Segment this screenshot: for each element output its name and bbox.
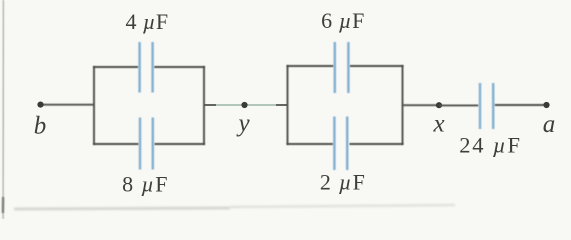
capacitor C2 8uF plates (140, 118, 153, 170)
wire block2 to node x (403, 104, 441, 106)
wire block1 bottom-left (93, 143, 138, 145)
block1 left edge (93, 66, 95, 145)
svg-text:b: b (34, 113, 47, 140)
block2 left edge (287, 65, 289, 145)
svg-text:8 µF: 8 µF (122, 172, 169, 197)
wire block1 top-left (93, 66, 138, 68)
scan edge line (left) (2, 0, 5, 219)
wire block1 to node y to block2 (204, 104, 287, 106)
svg-text:y: y (235, 110, 250, 137)
node x (436, 102, 442, 108)
svg-text:a: a (543, 111, 556, 138)
svg-text:6 µF: 6 µF (321, 8, 365, 33)
svg-text:x: x (432, 111, 444, 138)
wire block2 top-left (287, 65, 334, 67)
block2 right edge (402, 65, 404, 145)
wire node x to C5 (439, 104, 478, 106)
wire block2 bottom-right (350, 143, 404, 145)
wire block1 top-right (154, 66, 205, 68)
node b (37, 102, 43, 108)
scan shadow (bottom) (14, 205, 455, 209)
capacitor C3 6uF plates (335, 42, 349, 93)
wire block2 bottom-left (287, 143, 333, 145)
svg-text:4 µF: 4 µF (125, 9, 168, 34)
block1 right edge (203, 66, 205, 145)
wire dark end near block1 (204, 104, 216, 106)
wire dark end near block2 (276, 104, 287, 106)
wire b to block1 (41, 104, 94, 106)
wire block1 bottom-right (155, 143, 205, 145)
node a (543, 102, 549, 108)
node y (241, 102, 247, 108)
capacitor C4 2uF plates (334, 117, 347, 171)
svg-text:24 µF: 24 µF (459, 133, 522, 158)
wire C5 to node a (495, 104, 546, 106)
capacitor C1 4uF plates (140, 42, 153, 93)
wire block2 top-right (350, 65, 404, 67)
capacitor C5 24uF plates (480, 83, 493, 129)
svg-text:2 µF: 2 µF (320, 170, 366, 195)
